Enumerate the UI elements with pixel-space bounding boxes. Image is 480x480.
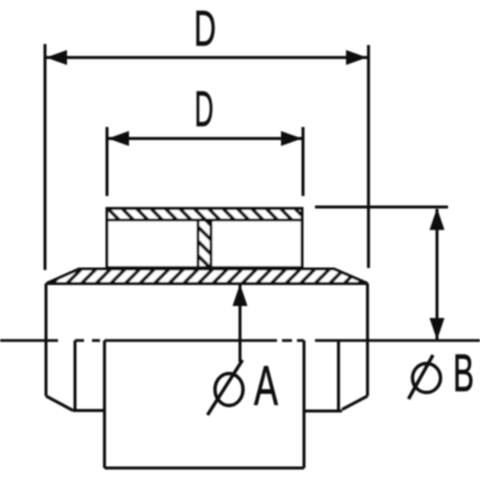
svg-text:D: D	[194, 1, 216, 57]
body bottom edge left segment	[73, 409, 105, 412]
upper socket left bore	[107, 220, 198, 268]
upper socket center stop ridge (hatched)	[198, 220, 211, 268]
body right hex flat edge	[337, 341, 340, 411]
body bottom-right chamfer	[342, 396, 368, 410]
dimension phiB line	[436, 209, 439, 340]
svg-text:B: B	[453, 344, 474, 403]
leader line for phiA	[239, 284, 242, 362]
dimension phiB top arrow	[430, 208, 445, 230]
dimension D2 right arrow	[281, 131, 302, 146]
lower socket right edge	[303, 341, 306, 469]
dimension D2 right extension line	[302, 127, 305, 196]
label phiA: phi symbol	[208, 360, 244, 415]
dimension phiB extension line (top)	[315, 206, 448, 209]
svg-text:A: A	[254, 355, 278, 417]
dimension D1 right arrow	[346, 50, 367, 65]
centerline (dash-dot axis)	[0, 339, 480, 342]
lower socket left edge	[103, 341, 106, 469]
dimension D2 line	[108, 137, 302, 140]
body left edge	[45, 284, 48, 397]
upper socket right bore	[211, 220, 302, 268]
body right edge	[366, 284, 369, 397]
dimension D1 line	[46, 56, 367, 59]
leader arrow for phiA	[233, 284, 248, 306]
upper socket top wall (hatched band)	[107, 209, 302, 221]
body left hex flat edge	[74, 341, 77, 411]
dimension phiB bottom arrow	[430, 318, 445, 340]
dimension D1 left arrow	[46, 50, 67, 65]
label phiB: phi symbol	[409, 355, 441, 399]
dimension D1 right extension line	[367, 45, 370, 268]
body bottom-left chamfer	[46, 396, 73, 411]
dimension D1 left extension line	[44, 44, 47, 270]
dimension D2 left arrow	[108, 131, 129, 146]
body top flange (hatched band with chamfered ends)	[47, 269, 368, 284]
dimension D2 left extension line	[106, 127, 109, 196]
lower socket bottom edge	[105, 467, 305, 470]
body bottom edge right segment	[304, 410, 342, 413]
svg-text:D: D	[195, 81, 214, 137]
